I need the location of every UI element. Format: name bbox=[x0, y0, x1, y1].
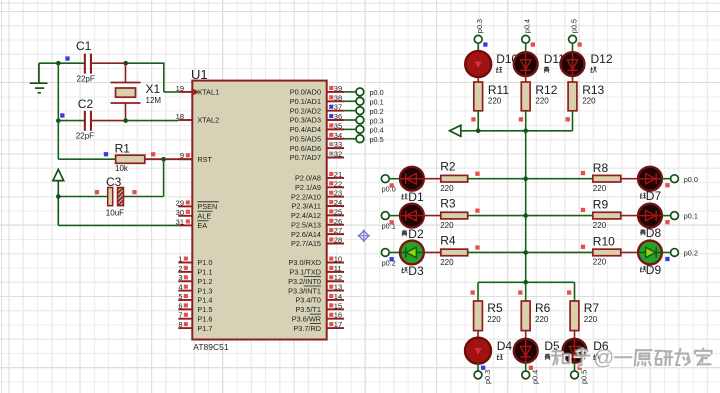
LED D2 bbox=[400, 204, 424, 241]
pin 26 P2.5/A13 bbox=[291, 217, 344, 230]
pin 27 P2.6/A14 bbox=[291, 226, 344, 239]
wire gnd to C1 bbox=[39, 62, 85, 64]
wire from trunk bbox=[526, 208, 593, 216]
wire bbox=[621, 178, 638, 180]
pin 23 P2.2/A10 bbox=[291, 189, 344, 202]
svg-text:@: @ bbox=[593, 347, 614, 370]
pin 30 ALE bbox=[176, 208, 213, 221]
power terminal arrow left bbox=[450, 125, 461, 136]
wire from trunk bbox=[526, 245, 593, 253]
wire bbox=[477, 43, 479, 82]
terminal p0.4 bottom bbox=[522, 363, 540, 384]
terminal p0.2 at U1 bbox=[344, 107, 384, 116]
terminal p0.5 top bbox=[569, 19, 582, 47]
pin 11 P3.1/TXD bbox=[289, 264, 344, 277]
wire bbox=[389, 178, 400, 180]
terminal p0.1 right row bbox=[662, 212, 698, 225]
wire bbox=[574, 331, 576, 339]
node crystal bottom bbox=[123, 118, 128, 123]
pin 7 P1.6 bbox=[178, 311, 212, 324]
resistor R11 220 bbox=[471, 82, 509, 122]
resistor R9 220 bbox=[593, 198, 621, 230]
wire bbox=[525, 43, 527, 82]
pin 1 P1.0 bbox=[178, 255, 212, 268]
LED D6 bbox=[563, 339, 609, 363]
resistor R10 220 bbox=[593, 235, 621, 267]
pin 25 P2.4/A12 bbox=[291, 207, 344, 220]
pin 5 P1.4 bbox=[178, 292, 212, 305]
terminal p0.0 right row bbox=[662, 175, 698, 188]
terminal p0.4 at U1 bbox=[344, 125, 384, 134]
crystal X1 12M bbox=[111, 63, 162, 120]
pin 21 P2.0/A8 bbox=[295, 170, 344, 183]
LED D1 bbox=[400, 167, 424, 204]
pin 3 P1.2 bbox=[178, 273, 212, 286]
pin 32 P0.7/AD7 bbox=[290, 149, 344, 162]
resistor R3 220 bbox=[424, 196, 480, 230]
wire left rail bbox=[57, 63, 59, 159]
wire bbox=[567, 282, 575, 301]
wire to trunk bbox=[468, 215, 526, 217]
wire bbox=[471, 282, 479, 301]
wire RST node down bbox=[163, 159, 165, 196]
LED D11 bbox=[514, 52, 565, 76]
pin 9 RST bbox=[178, 151, 212, 164]
op-amp U1 AT89C51 body bbox=[191, 67, 327, 352]
LED D12 bbox=[561, 52, 613, 76]
wire top bus bbox=[461, 130, 573, 132]
pin 35 P0.4/AD4 bbox=[290, 121, 344, 134]
wire from trunk bbox=[526, 171, 593, 179]
terminal p0.3 at U1 bbox=[344, 116, 384, 125]
pin 38 P0.1/AD1 bbox=[290, 93, 344, 106]
origin marker bbox=[357, 229, 370, 242]
LED D9 bbox=[638, 241, 662, 277]
resistor R1 10k bbox=[104, 142, 156, 173]
wire bbox=[525, 331, 527, 339]
resistor R13 220 bbox=[566, 82, 605, 122]
resistor R2 220 bbox=[424, 160, 480, 194]
wire to trunk bbox=[468, 178, 526, 180]
node bbox=[523, 213, 528, 218]
wire R1 to RST bbox=[145, 158, 193, 160]
LED D5 bbox=[514, 339, 560, 363]
wire bbox=[389, 215, 400, 217]
resistor R4 220 bbox=[424, 233, 480, 267]
pin 12 P3.2/INT0 bbox=[288, 273, 344, 286]
wire bbox=[477, 331, 479, 339]
pin 24 P2.3/A11 bbox=[292, 198, 344, 211]
terminal p0.5 bottom bbox=[571, 363, 589, 384]
node bbox=[476, 129, 481, 134]
pin 2 P1.1 bbox=[178, 264, 212, 277]
node bbox=[523, 280, 528, 285]
power terminal arrow bbox=[53, 169, 64, 225]
pin 16 P3.6/WR bbox=[292, 311, 344, 324]
pin 14 P3.4/T0 bbox=[295, 292, 344, 305]
pin 18 XTAL2 bbox=[176, 112, 220, 125]
wire bbox=[525, 111, 527, 131]
wire bbox=[621, 215, 638, 217]
wire bbox=[518, 282, 526, 301]
wire bbox=[389, 251, 400, 253]
pin 29 PSEN bbox=[176, 198, 219, 211]
pin 13 P3.3/INT1 bbox=[288, 283, 344, 296]
terminal p0.1 left row bbox=[381, 212, 395, 231]
LED D7 bbox=[638, 167, 662, 203]
wire trunk bbox=[525, 131, 527, 282]
resistor R5 220 bbox=[474, 301, 503, 331]
node crystal top bbox=[123, 61, 128, 66]
wire crystal to XTAL2 pin bbox=[126, 120, 179, 122]
pin 28 P2.7/A15 bbox=[291, 235, 344, 248]
terminal p0.3 bottom bbox=[474, 363, 492, 384]
LED D8 bbox=[638, 204, 662, 240]
terminal p0.1 at U1 bbox=[344, 97, 384, 106]
terminal p0.2 right row bbox=[662, 249, 698, 262]
wire C3 to node bbox=[124, 196, 164, 198]
pin 39 P0.0/AD0 bbox=[290, 84, 344, 97]
wire C2 rail bbox=[58, 120, 84, 122]
pin 34 P0.5/AD5 bbox=[290, 131, 344, 144]
pin 31 EA bbox=[176, 217, 209, 230]
LED D3 bbox=[400, 241, 424, 278]
LED D10 bbox=[465, 51, 518, 77]
pin 36 P0.3/AD3 bbox=[290, 112, 344, 125]
pin 17 P3.7/RD bbox=[293, 320, 344, 333]
pin 6 P1.5 bbox=[178, 301, 212, 314]
pin 4 P1.3 bbox=[178, 283, 212, 296]
XTAL1 clock marker bbox=[193, 89, 199, 96]
capacitor C2 bbox=[60, 97, 126, 140]
terminal p0.2 left row bbox=[381, 249, 395, 268]
node bbox=[523, 250, 528, 255]
resistor R7 220 bbox=[570, 301, 599, 331]
wire bbox=[572, 43, 574, 82]
terminal p0.4 top bbox=[522, 19, 535, 47]
resistor R12 220 bbox=[519, 82, 558, 122]
node bbox=[523, 176, 528, 181]
wire rail to R1 bbox=[58, 158, 115, 160]
pin 15 P3.5/T1 bbox=[295, 301, 344, 314]
node at C1/C2 rail bbox=[56, 61, 61, 66]
pin 10 P3.0/RXD bbox=[289, 255, 344, 268]
node bbox=[523, 129, 528, 134]
pin 8 P1.7 bbox=[178, 320, 212, 333]
wire EA rail bbox=[58, 224, 178, 226]
terminal p0.0 at U1 bbox=[344, 88, 384, 97]
wire bbox=[477, 111, 479, 131]
wire bbox=[621, 251, 638, 253]
wire bottom bus bbox=[478, 281, 575, 283]
node C3 left bbox=[56, 194, 61, 199]
pin 37 P0.2/AD2 bbox=[290, 103, 344, 116]
ground bbox=[30, 63, 48, 93]
wire C1 to corner bbox=[126, 62, 164, 92]
pin 19 XTAL1 bbox=[176, 84, 220, 97]
terminal p0.0 left row bbox=[381, 175, 395, 194]
resistor R8 220 bbox=[593, 161, 621, 193]
capacitor C1 bbox=[65, 39, 125, 84]
wire to trunk bbox=[468, 251, 526, 253]
wire to XTAL1 pin bbox=[164, 91, 179, 93]
pin 22 P2.1/A9 bbox=[295, 179, 344, 192]
node C2 left bbox=[56, 118, 61, 123]
resistor R6 220 bbox=[521, 301, 550, 331]
node RST bbox=[161, 157, 166, 162]
terminal p0.3 top bbox=[474, 19, 487, 47]
wire bbox=[572, 111, 574, 131]
LED D4 bbox=[465, 338, 512, 364]
terminal p0.5 at U1 bbox=[344, 135, 384, 144]
pin 33 P0.6/AD6 bbox=[290, 140, 344, 153]
